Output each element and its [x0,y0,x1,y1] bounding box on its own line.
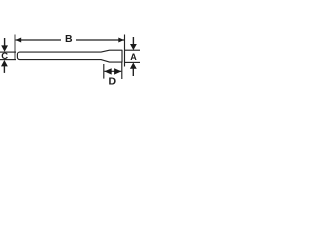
svg-text:B: B [65,33,73,45]
svg-text:C: C [1,51,8,62]
svg-text:D: D [109,75,117,87]
svg-text:A: A [130,52,137,62]
